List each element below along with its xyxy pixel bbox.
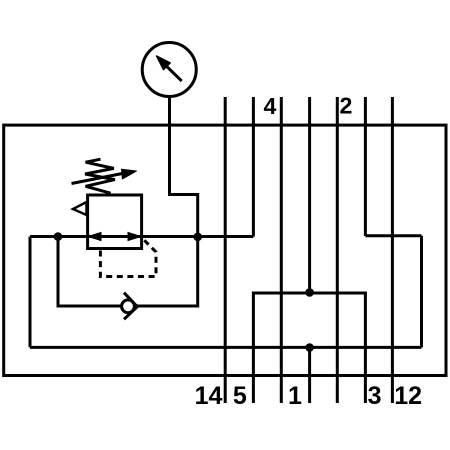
wire: left riser x=30: [29, 237, 32, 348]
wire: port 2 drop into block: [364, 97, 367, 236]
wire: port line (12) x=392: [391, 97, 394, 403]
wire: jog right at y=236: [365, 234, 421, 237]
adjustment arrow shaft: [72, 173, 124, 183]
wire: regulator output line y=236.5: [30, 235, 253, 238]
wire: port 4 riser x=253.4: [252, 97, 255, 237]
svg-text:12: 12: [394, 382, 422, 410]
svg-text:14: 14: [195, 382, 223, 410]
wire: port line x=281: [280, 97, 283, 403]
junction dot left: [54, 232, 63, 241]
wire: port line x=337: [336, 97, 339, 403]
manifold block outline: [4, 125, 446, 375]
wire: check valve bypass loop: [58, 237, 198, 306]
regulator flow arrow left head: [87, 232, 102, 241]
svg-text:3: 3: [368, 382, 382, 410]
pressure gauge body: [142, 43, 196, 97]
spring zigzag: [85, 159, 115, 193]
svg-text:2: 2: [339, 93, 352, 119]
regulator box: [88, 195, 142, 249]
junction dot gauge: [193, 233, 202, 242]
wire: U-link ports 5-3 via y=293: [253, 293, 365, 403]
wire: gauge stem with jog: [170, 97, 198, 237]
svg-text:1: 1: [288, 382, 302, 410]
gauge needle: [157, 56, 182, 81]
wire: port line (14) x=225: [224, 97, 227, 403]
svg-text:5: 5: [233, 382, 247, 410]
svg-text:4: 4: [264, 93, 277, 119]
junction dot port1 lower: [305, 343, 314, 352]
wire: long bottom feed line y=347.6: [30, 346, 422, 349]
check valve ball: [122, 300, 135, 313]
wire: right drop x=421.5: [420, 236, 423, 348]
relief vent triangle: [73, 202, 87, 215]
junction dot port1 upper: [305, 288, 314, 297]
adjustment arrow head: [122, 169, 137, 179]
wire: port 1 lower segment x=309.6: [308, 347, 311, 403]
pilot dashed line: [100, 239, 156, 277]
regulator flow arrow right head: [128, 232, 143, 241]
wire: port 1 upper segment x=309.6: [308, 97, 311, 292]
check valve seat: [124, 293, 137, 320]
